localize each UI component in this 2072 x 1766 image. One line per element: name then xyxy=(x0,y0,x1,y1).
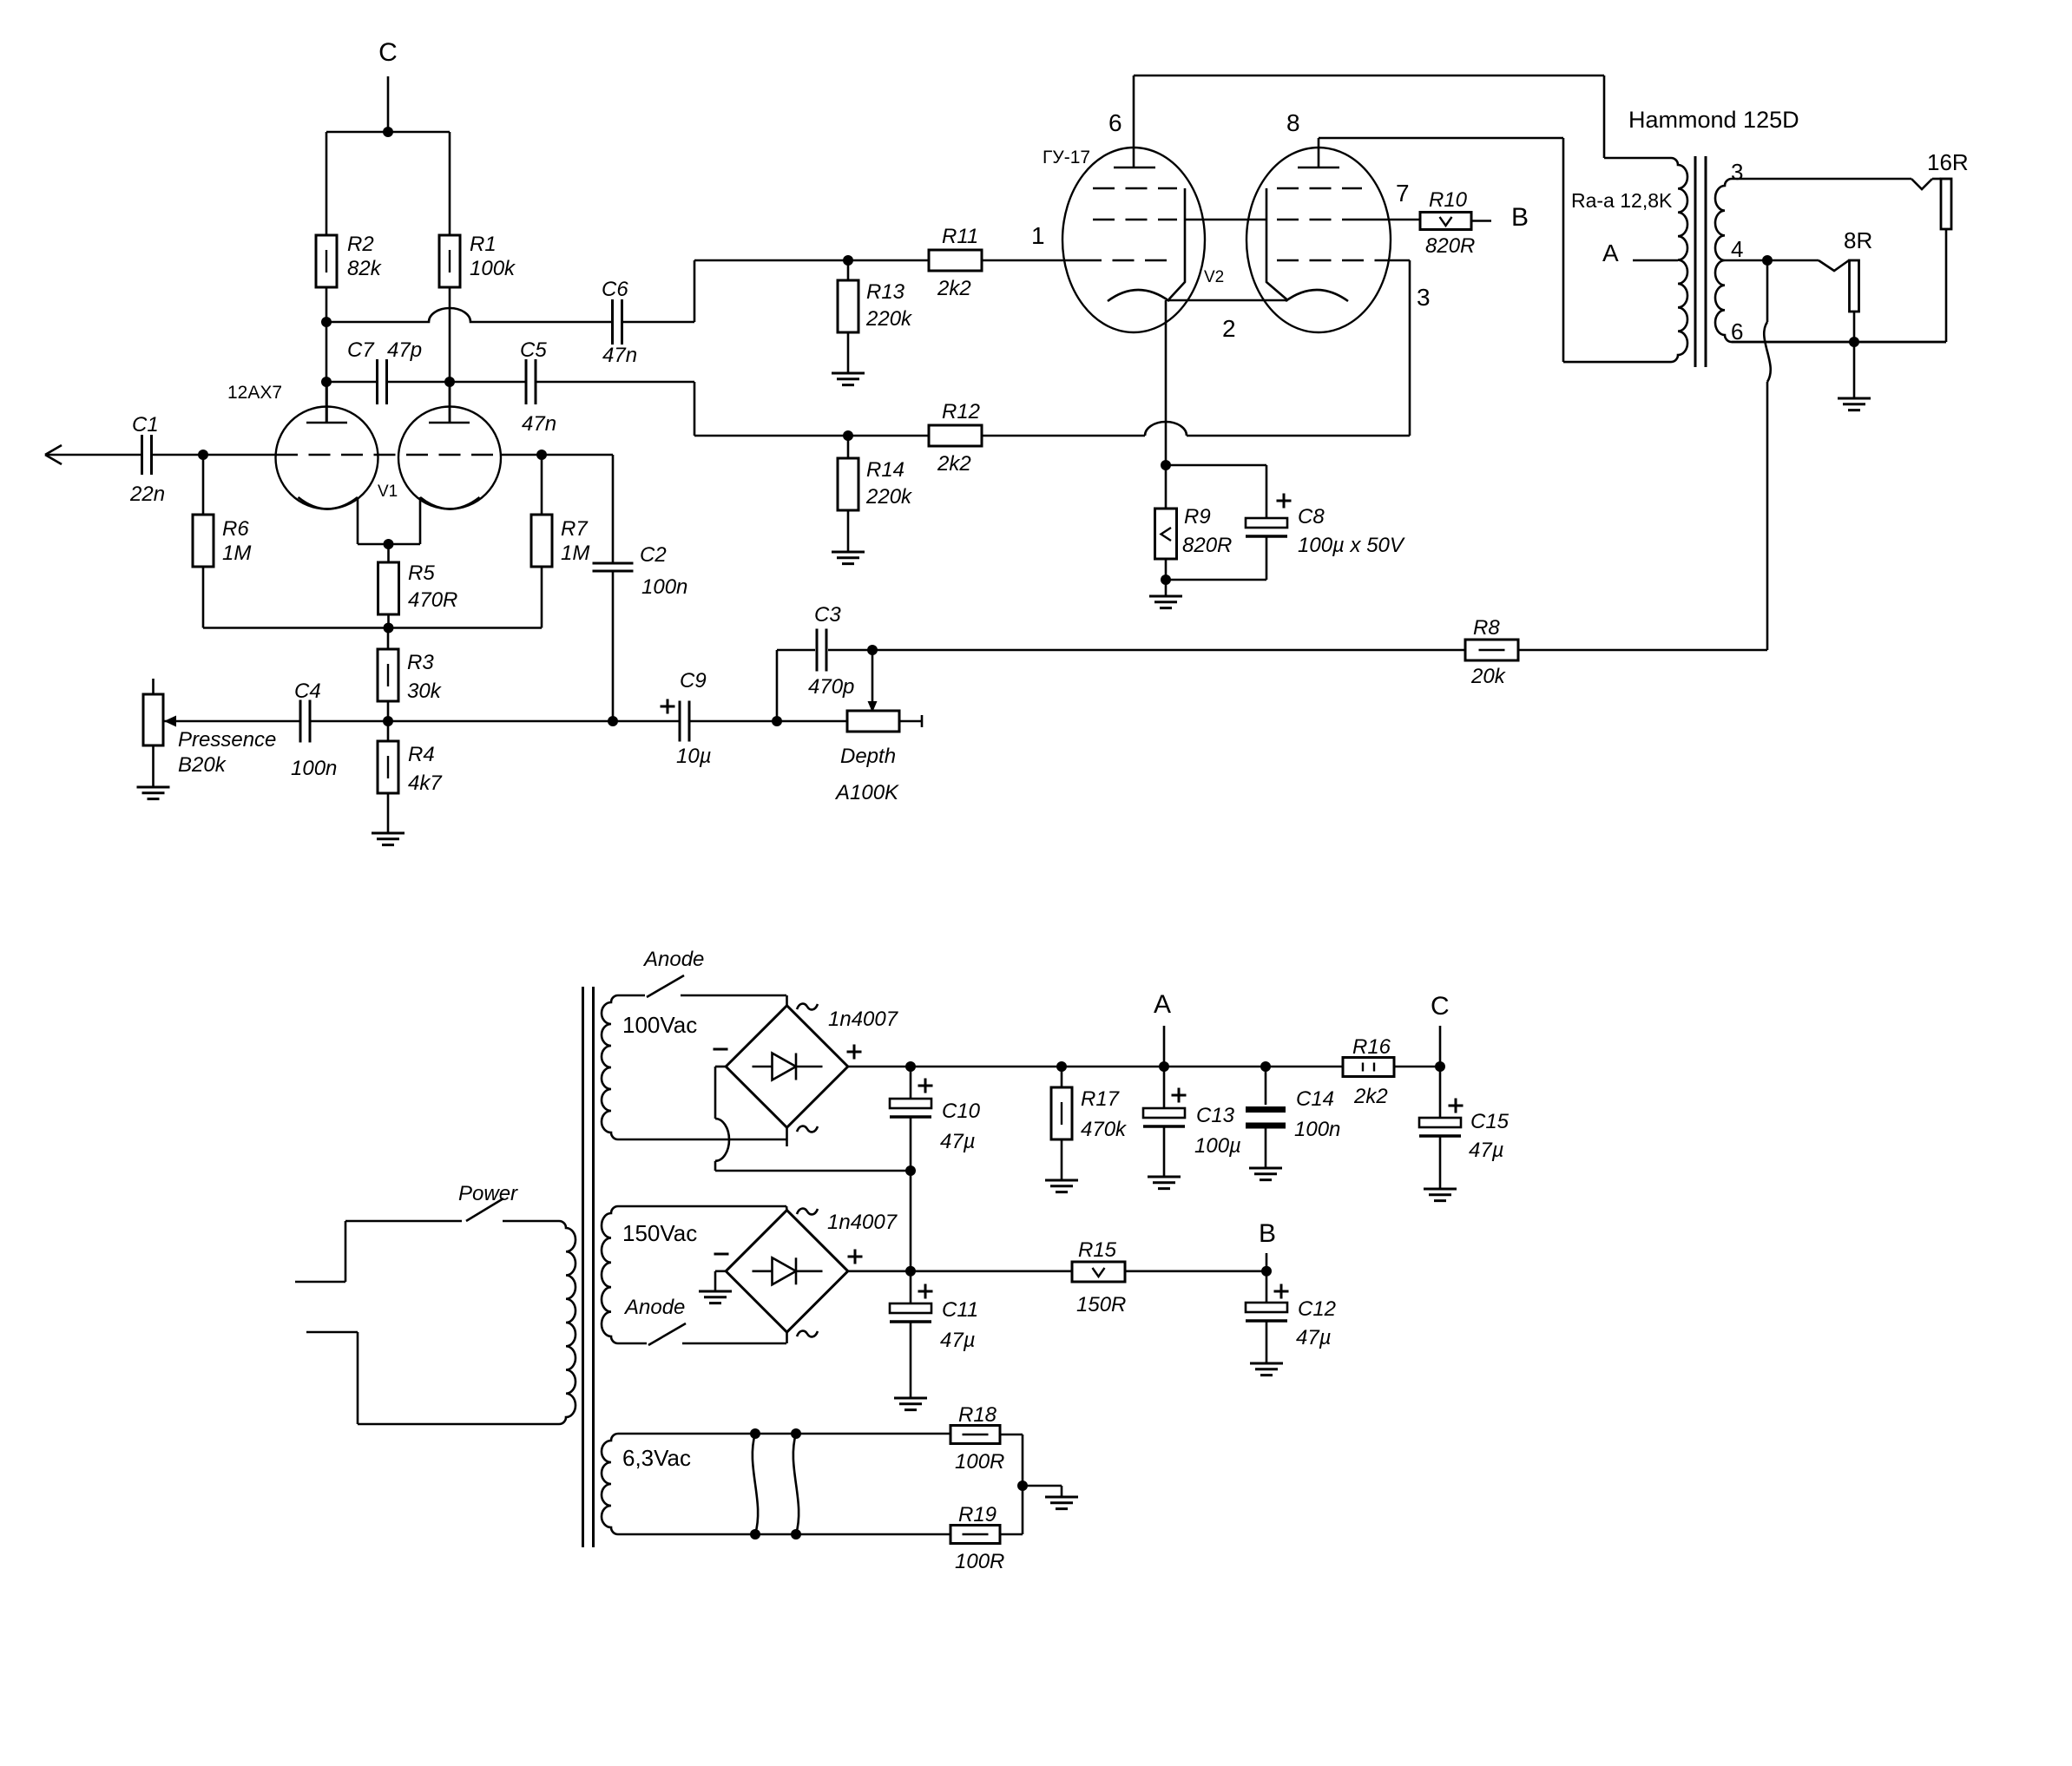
junction heater top b xyxy=(791,1428,801,1439)
svg-text:100µ x 50V: 100µ x 50V xyxy=(1298,534,1405,557)
svg-text:B20k: B20k xyxy=(178,753,227,777)
wire C10 to B rail xyxy=(910,1171,912,1271)
wire cathode bus xyxy=(203,627,542,629)
svg-text:150R: 150R xyxy=(1076,1293,1126,1316)
V2a anode pin 6 xyxy=(1114,167,1155,169)
svg-text:R5: R5 xyxy=(408,561,435,585)
svg-text:220k: 220k xyxy=(865,307,913,331)
ground under C11 xyxy=(894,1398,927,1410)
tube V1a envelope xyxy=(276,407,378,509)
junction C14 top xyxy=(1260,1061,1271,1072)
svg-text:R7: R7 xyxy=(561,517,589,541)
grid line V1 dashed xyxy=(276,454,500,456)
resistor R9 820R xyxy=(1165,465,1168,509)
svg-text:22n: 22n xyxy=(129,483,165,506)
resistor R3 30k xyxy=(387,628,390,650)
wire tap3 to 16R xyxy=(1911,179,1932,189)
svg-text:30k: 30k xyxy=(407,679,443,703)
svg-text:R18: R18 xyxy=(958,1403,997,1427)
ground under R17 xyxy=(1045,1180,1078,1192)
wire R19 to center xyxy=(1000,1533,1023,1536)
svg-text:Pressence: Pressence xyxy=(178,728,276,752)
svg-text:150Vac: 150Vac xyxy=(622,1220,697,1246)
ground under 8R xyxy=(1853,342,1856,398)
wire bridge1 minus with hop xyxy=(715,1066,726,1068)
svg-text:100n: 100n xyxy=(641,575,687,599)
V1a anode xyxy=(306,422,347,424)
wire bridge1 plus rail xyxy=(848,1066,1343,1068)
svg-text:R13: R13 xyxy=(866,280,905,304)
svg-text:R6: R6 xyxy=(222,517,249,541)
junction C3 branch xyxy=(772,716,782,726)
capacitor C6 xyxy=(611,299,614,345)
svg-text:Anode: Anode xyxy=(623,1296,685,1319)
svg-text:100n: 100n xyxy=(291,757,337,780)
svg-text:Anode: Anode xyxy=(642,948,704,971)
heater ground xyxy=(1023,1485,1062,1487)
svg-text:R14: R14 xyxy=(866,458,904,482)
bridge rectifier D1 1n4007 xyxy=(786,995,788,1006)
svg-text:C8: C8 xyxy=(1298,505,1325,528)
svg-text:B: B xyxy=(1259,1219,1276,1248)
ground under C12 xyxy=(1250,1363,1283,1375)
junction C7 right / anode2 xyxy=(444,377,455,387)
junction R17 top xyxy=(1056,1061,1067,1072)
wire R12 to V2b grid with hop over cathode drop xyxy=(982,435,1145,437)
svg-text:A100K: A100K xyxy=(834,781,899,804)
junction R9 top xyxy=(1161,460,1171,470)
svg-text:R12: R12 xyxy=(942,400,980,423)
svg-text:4: 4 xyxy=(1731,236,1743,262)
capacitor C15 47µ xyxy=(1439,1067,1442,1118)
svg-text:2: 2 xyxy=(1222,315,1236,342)
bridge2 minus to ground xyxy=(715,1270,726,1273)
capacitor C11 47µ xyxy=(910,1271,912,1303)
cathode tie pin 2 xyxy=(1169,299,1288,302)
junction R7 tap xyxy=(536,450,547,460)
svg-text:47µ: 47µ xyxy=(940,1130,976,1153)
svg-text:100R: 100R xyxy=(955,1450,1004,1474)
wire C2 branch xyxy=(612,455,615,563)
junction V1 cathodes xyxy=(384,539,394,549)
V2b cathode xyxy=(1286,290,1348,301)
svg-text:470R: 470R xyxy=(408,588,457,612)
resistor R5 470R xyxy=(387,544,390,562)
V2a beam rail xyxy=(1169,188,1186,299)
svg-text:1M: 1M xyxy=(561,542,589,565)
svg-text:1n4007: 1n4007 xyxy=(827,1211,898,1234)
svg-text:100n: 100n xyxy=(1294,1118,1340,1141)
junction C7 left xyxy=(321,377,332,387)
PT core xyxy=(582,987,584,1547)
resistor R17 470k xyxy=(1061,1067,1063,1087)
svg-text:C11: C11 xyxy=(942,1298,978,1322)
mains input leads xyxy=(295,1281,345,1283)
V1b cathode xyxy=(420,497,480,509)
wire R1 top lead xyxy=(449,132,451,235)
svg-text:16R: 16R xyxy=(1927,149,1969,175)
svg-text:8: 8 xyxy=(1286,109,1300,136)
svg-text:R8: R8 xyxy=(1473,616,1500,640)
resistor R13 220k xyxy=(847,260,850,280)
svg-text:Hammond 125D: Hammond 125D xyxy=(1628,107,1799,133)
flex wire b xyxy=(793,1434,799,1534)
power switch xyxy=(345,1220,462,1223)
resistor R12 2k2 xyxy=(929,425,982,446)
junction 8R bottom xyxy=(1849,337,1859,347)
svg-text:C14: C14 xyxy=(1296,1087,1334,1111)
junction R9 bottom xyxy=(1161,574,1171,585)
resistor R15 150R xyxy=(1072,1262,1125,1282)
svg-text:12AX7: 12AX7 xyxy=(227,383,282,403)
junction heater center xyxy=(1017,1480,1028,1491)
svg-text:47µ: 47µ xyxy=(940,1329,976,1352)
svg-text:100Vac: 100Vac xyxy=(622,1012,697,1038)
junction tap4 xyxy=(1762,255,1773,266)
svg-text:2k2: 2k2 xyxy=(937,277,971,300)
svg-text:R11: R11 xyxy=(942,225,978,248)
svg-text:220k: 220k xyxy=(865,485,913,509)
resistor R8 20k xyxy=(1465,640,1518,660)
svg-text:R1: R1 xyxy=(470,233,497,256)
svg-text:V2: V2 xyxy=(1204,268,1224,286)
svg-text:A: A xyxy=(1154,990,1171,1019)
wire top rail xyxy=(326,131,450,134)
svg-text:100k: 100k xyxy=(470,257,516,280)
svg-text:C1: C1 xyxy=(132,413,159,437)
svg-text:10µ: 10µ xyxy=(676,745,712,768)
resistor R11 2k2 xyxy=(929,250,982,271)
svg-text:C12: C12 xyxy=(1298,1297,1336,1321)
V1b anode xyxy=(429,422,470,424)
svg-text:6: 6 xyxy=(1108,109,1122,136)
wire R10 to B xyxy=(1471,220,1491,222)
resistor R19 100R xyxy=(950,1526,1000,1544)
winding 150Vac xyxy=(602,1206,786,1343)
V2b grid rows dashed xyxy=(1277,188,1384,260)
wire R2 top lead xyxy=(326,132,328,235)
svg-text:820R: 820R xyxy=(1182,534,1232,557)
svg-text:C13: C13 xyxy=(1196,1104,1235,1127)
svg-text:47p: 47p xyxy=(387,338,422,362)
svg-text:820R: 820R xyxy=(1425,234,1475,258)
wire 150Vac top lead xyxy=(786,1206,788,1211)
resistor R1 xyxy=(439,235,460,287)
svg-text:C4: C4 xyxy=(294,679,321,703)
wire R11 to V2a grid xyxy=(982,259,1080,262)
wire anode1 feed with hop over R1 xyxy=(326,308,612,322)
OPT secondary winding xyxy=(1715,179,1946,342)
svg-text:Depth: Depth xyxy=(840,745,896,768)
wire pin8 to OPT primary bottom xyxy=(1319,137,1563,140)
svg-text:47µ: 47µ xyxy=(1469,1139,1504,1162)
wire g2 to R10 xyxy=(1362,219,1420,221)
resistor R10 820R xyxy=(1420,213,1471,230)
wire C3 branch xyxy=(776,650,779,721)
anode switch bottom xyxy=(648,1323,686,1345)
winding 100Vac xyxy=(602,995,786,1139)
svg-text:Ra-a 12,8K: Ra-a 12,8K xyxy=(1571,189,1673,212)
resistor R16 2k2 xyxy=(1343,1058,1394,1077)
OPT primary winding xyxy=(1563,158,1687,362)
wire input to C1 xyxy=(45,454,142,456)
svg-text:R16: R16 xyxy=(1352,1035,1391,1059)
wire cathode drop xyxy=(1165,300,1168,465)
svg-text:A: A xyxy=(1602,240,1619,266)
wire tap6 xyxy=(1732,341,1946,344)
svg-text:ГУ-17: ГУ-17 xyxy=(1043,148,1090,167)
capacitor C7 47p xyxy=(376,359,378,404)
wire C7 link xyxy=(326,381,377,384)
svg-text:6,3Vac: 6,3Vac xyxy=(622,1445,691,1471)
svg-text:C: C xyxy=(378,38,398,67)
svg-text:B: B xyxy=(1511,203,1529,232)
resistor R14 220k xyxy=(847,436,850,458)
svg-text:470k: 470k xyxy=(1081,1118,1128,1141)
resistor R6 1M xyxy=(202,455,205,515)
svg-text:470p: 470p xyxy=(808,675,854,699)
wire 16R down xyxy=(1945,229,1948,342)
wire R2 bottom to anode xyxy=(326,286,328,423)
svg-text:82k: 82k xyxy=(347,257,383,280)
svg-text:C7: C7 xyxy=(347,338,375,362)
junction C12 top xyxy=(1261,1266,1272,1277)
svg-text:R2: R2 xyxy=(347,233,374,256)
anode switch top xyxy=(647,975,684,997)
junction C11 top xyxy=(905,1266,916,1277)
svg-text:V1: V1 xyxy=(378,483,398,501)
svg-text:2k2: 2k2 xyxy=(1353,1085,1388,1108)
svg-text:20k: 20k xyxy=(1470,665,1507,688)
wire presence line xyxy=(164,720,300,723)
ground under R14 xyxy=(832,552,865,564)
junction C10 top xyxy=(905,1061,916,1072)
V1 cathode leads xyxy=(357,497,359,544)
svg-text:8R: 8R xyxy=(1844,227,1872,253)
junction node C xyxy=(383,127,393,137)
junction C15 top xyxy=(1435,1061,1445,1072)
V2b anode pin 8 xyxy=(1298,167,1339,169)
junction R13 tap xyxy=(843,255,853,266)
svg-text:C3: C3 xyxy=(814,603,841,627)
wiper arrow to Depth xyxy=(872,650,874,703)
svg-text:100µ: 100µ xyxy=(1194,1134,1241,1158)
svg-text:R4: R4 xyxy=(408,743,435,766)
V2a grid rows dashed xyxy=(1080,188,1177,260)
wire pin6 to OPT primary top xyxy=(1134,75,1604,77)
wire C9 link xyxy=(613,720,680,723)
svg-text:47n: 47n xyxy=(602,344,637,367)
capacitor C8 100µ xyxy=(1166,464,1266,467)
svg-text:Power: Power xyxy=(458,1182,518,1205)
junction R14 tap xyxy=(843,430,853,441)
wire grid V1b to R7 node xyxy=(500,454,613,456)
capacitor C13 100µ xyxy=(1163,1067,1166,1108)
V2b beam rail xyxy=(1266,188,1288,300)
wire R18 to center xyxy=(1000,1434,1023,1436)
tube V2a envelope xyxy=(1062,148,1205,332)
svg-text:R9: R9 xyxy=(1184,505,1211,528)
svg-text:C9: C9 xyxy=(680,669,707,693)
capacitor C10 47µ xyxy=(910,1067,912,1099)
wire tap4 to R8 with wiggle xyxy=(1766,260,1769,322)
potentiometer Pressence B20k xyxy=(152,679,155,694)
junction C13 top xyxy=(1159,1061,1169,1072)
junction R6 tap xyxy=(198,450,208,460)
capacitor C1 22n xyxy=(141,435,143,475)
svg-text:R10: R10 xyxy=(1429,188,1468,212)
svg-text:R19: R19 xyxy=(958,1503,997,1526)
resistor R4 4k7 xyxy=(387,721,390,741)
ground under C14 xyxy=(1249,1168,1282,1180)
ground under R13 xyxy=(832,373,865,385)
svg-text:7: 7 xyxy=(1396,180,1410,207)
junction heater top a xyxy=(750,1428,760,1439)
svg-text:C6: C6 xyxy=(602,278,628,301)
junction heater bottom b xyxy=(791,1529,801,1540)
wire C5 link xyxy=(450,381,526,384)
junction cathode bus / R3 xyxy=(384,623,394,634)
svg-text:4k7: 4k7 xyxy=(408,771,443,795)
PT primary winding xyxy=(358,1221,576,1424)
junction C2 node xyxy=(608,716,618,726)
capacitor C12 47µ xyxy=(1266,1271,1268,1303)
junction C10 bottom xyxy=(905,1165,916,1176)
junction R2/C6 feed xyxy=(321,317,332,327)
wire R8 line xyxy=(872,649,1465,652)
svg-text:C15: C15 xyxy=(1470,1110,1510,1133)
potentiometer Depth A100K xyxy=(777,720,847,723)
svg-text:47n: 47n xyxy=(522,412,556,436)
capacitor C2 100n xyxy=(593,562,634,565)
ground under C15 xyxy=(1424,1189,1457,1201)
svg-text:3: 3 xyxy=(1731,159,1743,185)
junction R4 node xyxy=(383,716,393,726)
capacitor C5 47n xyxy=(525,359,528,404)
capacitor C3 470p xyxy=(816,629,819,672)
svg-text:47µ: 47µ xyxy=(1296,1326,1332,1349)
capacitor C9 10µ xyxy=(679,701,681,742)
resistor R18 100R xyxy=(950,1426,1000,1444)
svg-text:R3: R3 xyxy=(407,651,434,674)
svg-text:1: 1 xyxy=(1031,222,1045,249)
wire R1 bottom to anode xyxy=(449,286,451,423)
resistor 16R xyxy=(1941,179,1951,229)
capacitor C14 100n xyxy=(1265,1067,1267,1105)
svg-text:C2: C2 xyxy=(640,543,667,567)
ground under Pressence xyxy=(137,787,170,799)
bridge rectifier D2 1n4007 xyxy=(726,1211,848,1333)
svg-text:C: C xyxy=(1431,992,1450,1021)
svg-text:1n4007: 1n4007 xyxy=(828,1008,899,1031)
tube V2b envelope xyxy=(1246,148,1391,332)
wire C1 to grid xyxy=(152,454,276,456)
resistor R7 1M xyxy=(541,455,543,515)
svg-text:C5: C5 xyxy=(520,338,547,362)
input arrow xyxy=(45,445,62,464)
ground under R4 xyxy=(372,833,405,845)
resistor R2 xyxy=(316,235,337,287)
junction heater bottom a xyxy=(750,1529,760,1540)
svg-text:C10: C10 xyxy=(942,1100,981,1123)
V1a cathode xyxy=(299,497,358,509)
resistor 8R xyxy=(1850,260,1859,312)
capacitor C4 100n xyxy=(299,700,302,743)
svg-text:100R: 100R xyxy=(955,1550,1004,1573)
svg-text:2k2: 2k2 xyxy=(937,452,971,476)
svg-text:1M: 1M xyxy=(222,542,251,565)
svg-text:R15: R15 xyxy=(1078,1238,1117,1262)
svg-text:3: 3 xyxy=(1417,284,1431,311)
junction Depth wiper feed xyxy=(867,645,878,655)
wire tap4 xyxy=(1725,259,1819,262)
svg-text:R17: R17 xyxy=(1081,1087,1121,1111)
flex wire a xyxy=(753,1434,758,1534)
ground under C13 xyxy=(1148,1177,1181,1189)
V2a cathode xyxy=(1108,290,1169,301)
screen tie g2 xyxy=(1185,219,1266,221)
svg-text:6: 6 xyxy=(1731,318,1743,345)
wire B rail xyxy=(848,1270,1072,1273)
OPT core xyxy=(1694,156,1697,367)
winding 6,3Vac xyxy=(602,1434,950,1534)
tube V1b envelope xyxy=(398,407,501,509)
ground under R9 xyxy=(1165,580,1168,596)
